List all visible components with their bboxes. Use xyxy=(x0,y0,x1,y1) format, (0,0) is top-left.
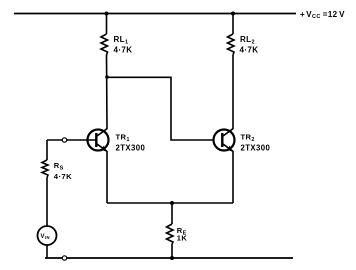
wire: cross-coupling TR1 collector to TR2 base xyxy=(107,77,213,140)
resistor RL1 xyxy=(101,34,108,55)
node: top rail / RL1 junction xyxy=(105,12,109,16)
wire: emitter bus xyxy=(107,202,233,204)
wire: top rail to RL2 xyxy=(232,14,234,35)
terminal: open circle on TR1 base wire xyxy=(62,138,66,142)
wire: TR1 base to input node xyxy=(47,139,96,141)
transistor TR2 2TX300 xyxy=(214,129,235,152)
transistor TR1 2TX300 xyxy=(88,129,109,152)
resistor RE xyxy=(167,224,174,244)
svg-text:VIN: VIN xyxy=(41,234,50,240)
wire: ground bottom rail xyxy=(45,257,293,259)
wire: top rail to RL1 xyxy=(106,14,108,35)
wire: RE to bottom rail xyxy=(171,244,173,258)
svg-text:4·7K: 4·7K xyxy=(54,172,72,181)
source Vin xyxy=(38,226,57,245)
wire: input node down to RS xyxy=(46,140,48,160)
svg-text:2TX300: 2TX300 xyxy=(116,143,146,152)
svg-text:2TX300: 2TX300 xyxy=(241,143,271,152)
wire: +Vcc top rail xyxy=(14,13,296,15)
svg-text:1K: 1K xyxy=(177,234,188,243)
wire: TR1 emitter down xyxy=(106,151,108,203)
svg-text:4·7K: 4·7K xyxy=(240,45,259,54)
wire: RL2 to TR2 collector xyxy=(232,55,234,129)
terminal: open circle on bottom rail xyxy=(62,256,66,260)
resistor RL2 xyxy=(228,34,235,55)
node: bottom rail / RE junction xyxy=(170,256,174,260)
node: emitter bus / RE junction xyxy=(170,201,174,205)
wire: RL1 to TR1 collector xyxy=(106,55,109,129)
svg-text:+VCC=12V: +VCC=12V xyxy=(300,10,345,20)
svg-text:4·7K: 4·7K xyxy=(114,45,133,54)
node: top rail / RL2 junction xyxy=(231,12,235,16)
node: TR1 collector junction xyxy=(105,75,109,79)
resistor RS xyxy=(42,160,48,178)
wire: RS to Vin source xyxy=(46,178,48,227)
wire: Vin to bottom rail xyxy=(46,245,48,258)
wire: junction to RE xyxy=(171,203,173,224)
wire: TR2 emitter down xyxy=(232,151,234,203)
